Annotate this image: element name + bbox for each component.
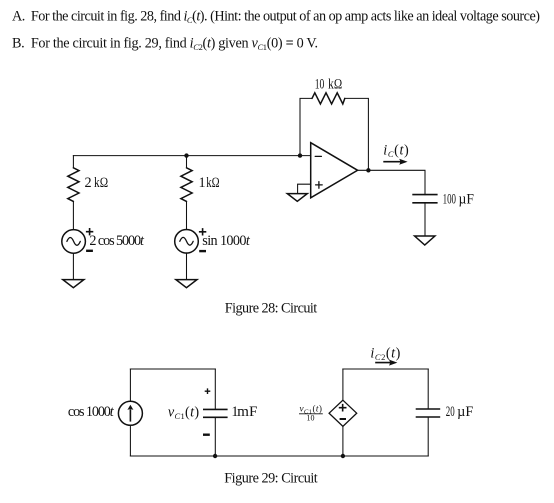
svg-text:sin 1000t: sin 1000t <box>202 233 251 249</box>
svg-text:20: 20 <box>446 404 455 420</box>
svg-text:B. For the circuit in fig. 29: B. For the circuit in fig. 29, find iC2(… <box>12 35 318 52</box>
svg-text:kΩ: kΩ <box>328 76 342 92</box>
svg-text:10: 10 <box>315 76 325 92</box>
svg-text:iC(t): iC(t) <box>383 143 409 160</box>
svg-text:Figure 29: Circuit: Figure 29: Circuit <box>224 471 318 487</box>
svg-text:A. For the circuit in fig. 28: A. For the circuit in fig. 28, find iC(t… <box>12 9 540 26</box>
svg-text:mF: mF <box>237 404 257 420</box>
svg-text:iC2(t): iC2(t) <box>370 346 400 363</box>
svg-text:2: 2 <box>85 175 92 191</box>
svg-text:2 cos 5000t: 2 cos 5000t <box>89 233 145 249</box>
svg-text:kΩ: kΩ <box>206 175 220 191</box>
svg-text:kΩ: kΩ <box>94 175 108 191</box>
svg-text:µF: µF <box>459 191 474 207</box>
svg-text:cos 1000t: cos 1000t <box>68 404 115 420</box>
svg-text:100: 100 <box>443 191 456 207</box>
svg-text:1: 1 <box>199 175 206 191</box>
svg-text:Figure 28: Circuit: Figure 28: Circuit <box>225 300 318 316</box>
svg-text:µF: µF <box>457 404 473 420</box>
svg-text:vC1(t): vC1(t) <box>168 404 199 421</box>
